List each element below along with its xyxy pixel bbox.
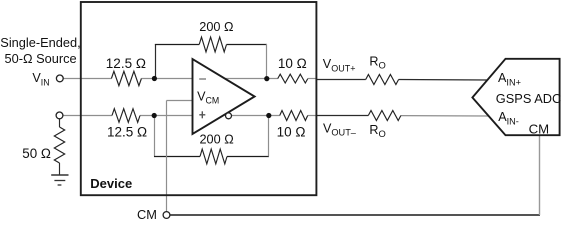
svg-text:50 Ω: 50 Ω (22, 146, 51, 161)
svg-text:12.5 Ω: 12.5 Ω (107, 124, 147, 139)
svg-text:CM: CM (137, 207, 157, 220)
svg-text:200 Ω: 200 Ω (200, 132, 234, 146)
svg-text:10 Ω: 10 Ω (278, 56, 307, 71)
svg-text:200 Ω: 200 Ω (199, 20, 233, 34)
svg-text:12.5 Ω: 12.5 Ω (106, 56, 146, 71)
svg-text:Single-Ended,: Single-Ended, (0, 35, 80, 50)
svg-text:50-Ω Source: 50-Ω Source (5, 51, 77, 66)
svg-text:CM: CM (529, 122, 550, 137)
svg-text:10 Ω: 10 Ω (277, 125, 306, 140)
svg-text:Device: Device (90, 176, 132, 191)
svg-text:GSPS ADC: GSPS ADC (496, 91, 561, 106)
